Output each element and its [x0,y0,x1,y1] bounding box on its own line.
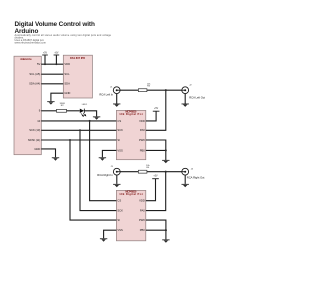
wire J3 ground stem [116,175,118,184]
svg-text:10k Digital Pot: 10k Digital Pot [119,192,142,196]
wire U4 PB0 [146,229,166,231]
svg-text:VDD: VDD [139,199,145,203]
svg-text:R3: R3 [147,86,151,88]
svg-text:RCA Right In: RCA Right In [97,173,113,177]
LED LED1 [80,104,88,117]
ground U3 PB0 [162,160,169,163]
wire CS net [41,120,116,122]
wire J3 to R4 [120,171,138,173]
svg-text:www.electroschematics.com: www.electroschematics.com [15,42,46,45]
svg-text:10k Digital Pot: 10k Digital Pot [119,112,142,116]
svg-text:SCK (13): SCK (13) [29,128,40,132]
svg-text:10: 10 [37,119,40,123]
wire LED1 cathode [84,111,96,117]
svg-text:GND: GND [64,91,70,95]
svg-text:MOSI (11): MOSI (11) [28,138,40,142]
connector J2 RCA Left Out [182,85,206,100]
digital pot U3 MCP41010 [116,109,145,159]
ground J1 [113,104,120,107]
wire J1 ground stem [116,94,118,104]
wire U3 VSS [102,150,116,157]
wire J2 ground stem [184,94,186,104]
power +5V A [44,55,46,64]
svg-text:+5V: +5V [153,176,158,178]
wire node to U3 PA0 [146,90,166,130]
power +5V B [55,55,57,64]
svg-text:PA0: PA0 [140,209,145,213]
connector J3 RCA Right In [97,166,120,177]
ground J2 [182,104,189,107]
svg-text:Arduino Uno: Arduino Uno [20,58,32,61]
wire U3 PW0 [146,140,166,160]
svg-text:R2: R2 [61,105,65,107]
svg-text:RCA Right Out: RCA Right Out [187,175,205,179]
ground U3 VSS [99,157,106,160]
connector J4 RCA Right Out [182,168,205,179]
wire SDA net [41,83,63,85]
wire U4 PW0 [146,220,166,239]
svg-text:Automatically control all ster: Automatically control all stereo audio v… [15,34,112,37]
wire R3 to J2 [147,89,182,91]
wire U3 PB0 [146,149,166,151]
resistor R2 [57,103,67,112]
svg-text:SDA: SDA [64,82,70,86]
svg-text:VDD: VDD [64,62,70,66]
svg-text:SDA (A4): SDA (A4) [29,82,40,86]
svg-text:+5V: +5V [43,52,48,54]
node +5V A [44,63,46,65]
node SCK branch [79,129,81,131]
junction dots [44,63,167,231]
wire 5V net [41,63,63,65]
node U4 PB0 [165,229,167,231]
Arduino U1 [14,56,41,155]
node CS branch [89,120,91,122]
connector J1 RCA Left In [99,86,120,96]
ground DS1807 [47,101,54,104]
svg-text:SCL (A5): SCL (A5) [29,72,40,76]
svg-text:SCL: SCL [64,72,70,76]
svg-text:CS: CS [117,119,121,123]
svg-text:J4: J4 [191,168,194,170]
svg-text:J2: J2 [189,85,192,87]
svg-text:VSS: VSS [117,228,123,232]
ground U4 VSS [100,238,107,241]
wire DS1807 GND [51,93,63,101]
ground J4 [182,184,189,187]
svg-text:+5V: +5V [54,52,59,54]
wire SCL net [41,73,63,75]
svg-text:RCA Left Out: RCA Left Out [189,95,205,99]
wire R4 to J4 [147,171,182,173]
wire MOSI net [41,139,116,141]
svg-text:VSS: VSS [117,148,123,152]
wire J1 to R3 [120,89,138,91]
digital pot U2 DS1807 [63,55,92,98]
wire J4 ground stem [184,175,186,184]
svg-text:SI: SI [117,138,120,142]
wire U3 VDD to +5V [146,112,156,121]
ground J3 [113,184,120,187]
node right out [165,171,167,173]
svg-text:SCK: SCK [117,128,123,132]
wire node to U4 PA0 [146,172,166,211]
svg-text:PA0: PA0 [140,128,145,132]
ground LED [93,116,100,119]
node left out [165,89,167,91]
wire R2 to LED1 [67,110,80,112]
svg-text:SCK: SCK [117,209,123,213]
svg-text:+5V: +5V [154,108,159,110]
resistor R3 [138,84,151,92]
wire Arduino GND [41,149,55,157]
node U3 PB0 [165,149,167,151]
svg-text:CS: CS [117,199,121,203]
svg-text:J3: J3 [110,166,113,168]
svg-text:VDD: VDD [139,119,145,123]
svg-text:RCA Left In: RCA Left In [99,93,113,97]
wire U4 VSS [104,230,117,238]
wire SCK net [41,129,116,131]
ground Arduino GND [52,157,59,160]
svg-text:PB0: PB0 [140,148,146,152]
ground U4 PB0 [162,239,169,242]
resistor R4 [138,165,150,173]
wire U4 VDD to +5V [146,179,156,201]
digital pot U4 MCP41010 [116,189,145,240]
wire pin9 to R2 [41,110,56,112]
svg-text:PB0: PB0 [140,228,146,232]
svg-text:R4: R4 [146,167,150,169]
svg-text:5V: 5V [37,62,40,66]
svg-text:LED1: LED1 [82,104,88,106]
svg-text:J1: J1 [110,86,113,88]
svg-text:PW0: PW0 [139,138,145,142]
svg-text:SI: SI [117,218,120,222]
svg-text:DS1 807 IPD: DS1 807 IPD [70,56,85,60]
node +5V B [55,63,57,65]
node MOSI branch [69,139,71,141]
svg-text:PW0: PW0 [139,218,145,222]
svg-text:GND: GND [34,147,40,151]
